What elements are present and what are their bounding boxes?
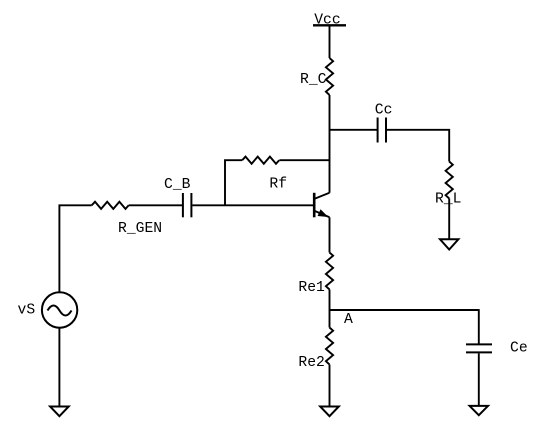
wire vS to ground bbox=[58, 328, 60, 407]
wire collector node to Cc bbox=[330, 129, 378, 131]
wire Ce to ground bbox=[478, 353, 480, 406]
wire Re1 to node A bbox=[329, 290, 331, 311]
ground at vS bbox=[50, 407, 69, 417]
svg-text:C_B: C_B bbox=[164, 177, 191, 193]
svg-text:R_L: R_L bbox=[435, 192, 461, 208]
power symbol Vcc bbox=[313, 24, 346, 26]
resistor Re1 bbox=[326, 253, 333, 290]
resistor Re2 bbox=[326, 328, 333, 365]
svg-text:Ce: Ce bbox=[510, 341, 528, 357]
capacitor C_B bbox=[183, 193, 192, 217]
wire Vcc to R_C bbox=[329, 25, 331, 58]
resistor R_L bbox=[446, 162, 453, 199]
wire R_L to ground bbox=[448, 199, 450, 240]
wire Cc to R_L corner bbox=[387, 130, 449, 162]
capacitor Cc bbox=[378, 118, 386, 143]
capacitor Ce bbox=[466, 344, 492, 352]
wire node A to Ce bbox=[478, 309, 480, 344]
ground at Re2 bbox=[320, 407, 339, 417]
node A wire bbox=[330, 309, 479, 311]
svg-text:Cc: Cc bbox=[375, 103, 393, 119]
wire R_C to collector bbox=[329, 95, 331, 193]
svg-text:R_GEN: R_GEN bbox=[118, 221, 162, 237]
wire node A to Re2 bbox=[329, 310, 331, 328]
wire Rf to base node corner bbox=[225, 160, 242, 205]
svg-text:Re2: Re2 bbox=[298, 355, 324, 371]
resistor R_C bbox=[326, 58, 333, 95]
svg-text:R_C: R_C bbox=[300, 72, 327, 88]
source vS bbox=[42, 292, 77, 327]
svg-text:Re1: Re1 bbox=[298, 280, 325, 296]
wire Rf horizontal bbox=[279, 159, 329, 161]
wire emitter to Re1 bbox=[329, 217, 331, 252]
wire source to C_B bbox=[129, 204, 182, 206]
ground at R_L bbox=[440, 239, 458, 249]
wire base bbox=[192, 204, 313, 206]
svg-text:A: A bbox=[344, 312, 353, 328]
svg-text:Rf: Rf bbox=[269, 177, 287, 193]
wire Re2 to ground bbox=[329, 365, 331, 407]
svg-text:Vcc: Vcc bbox=[314, 13, 340, 29]
resistor R_GEN bbox=[92, 202, 129, 209]
svg-text:vS: vS bbox=[18, 303, 36, 319]
resistor Rf bbox=[242, 157, 279, 164]
ground at Ce bbox=[470, 406, 488, 415]
transistor Q1 bbox=[314, 193, 329, 218]
wire R_GEN to vS corner bbox=[59, 205, 91, 292]
